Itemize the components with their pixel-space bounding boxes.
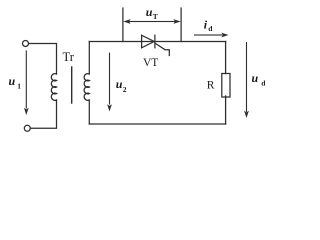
svg-text:u: u bbox=[116, 77, 123, 91]
transformer secondary winding bbox=[84, 74, 89, 101]
terminal top-left bbox=[23, 41, 29, 47]
svg-text:d: d bbox=[208, 24, 213, 33]
thyristor VT anode triangle bbox=[142, 35, 155, 48]
wire primary top bbox=[29, 44, 57, 75]
svg-text:u: u bbox=[252, 71, 259, 85]
u_1 voltage arrow bbox=[26, 50, 27, 108]
svg-text:VT: VT bbox=[143, 57, 158, 69]
wire loop right upper bbox=[225, 42, 227, 74]
transformer core bbox=[71, 67, 73, 103]
wire loop left upper (secondary lead) bbox=[88, 42, 90, 75]
wire loop right lower bbox=[225, 96, 227, 124]
svg-text:T: T bbox=[153, 12, 158, 21]
label i_d bbox=[204, 18, 214, 34]
wire loop left lower (secondary lead) bbox=[88, 100, 90, 124]
resistor R body bbox=[222, 74, 230, 98]
svg-text:R: R bbox=[207, 80, 215, 92]
svg-text:u: u bbox=[9, 74, 16, 88]
wire primary bottom bbox=[30, 100, 56, 128]
i_d current arrow bbox=[194, 34, 223, 35]
svg-text:2: 2 bbox=[123, 85, 127, 94]
terminal bottom-left bbox=[24, 125, 30, 131]
label u_1 bbox=[9, 74, 22, 91]
wire loop bottom bbox=[89, 123, 225, 125]
svg-text:u: u bbox=[146, 5, 153, 19]
thyristor VT gate lead bbox=[156, 44, 170, 56]
u_T dimension arrow bbox=[126, 21, 179, 22]
svg-text:i: i bbox=[204, 18, 208, 32]
label u_T bbox=[146, 5, 158, 21]
wire loop top bbox=[89, 41, 225, 43]
u_2 voltage arrow bbox=[109, 53, 110, 105]
svg-text:d: d bbox=[261, 79, 266, 88]
transformer primary winding bbox=[51, 74, 56, 101]
label u_d bbox=[252, 71, 267, 88]
u_T measure tick left bbox=[122, 8, 124, 42]
thyristor VT cathode bar bbox=[154, 35, 156, 48]
u_d voltage arrow bbox=[246, 42, 247, 112]
u_T measure tick right bbox=[180, 8, 182, 42]
svg-text:1: 1 bbox=[17, 82, 21, 91]
svg-text:Tr: Tr bbox=[63, 50, 75, 64]
label u_2 bbox=[116, 77, 127, 94]
